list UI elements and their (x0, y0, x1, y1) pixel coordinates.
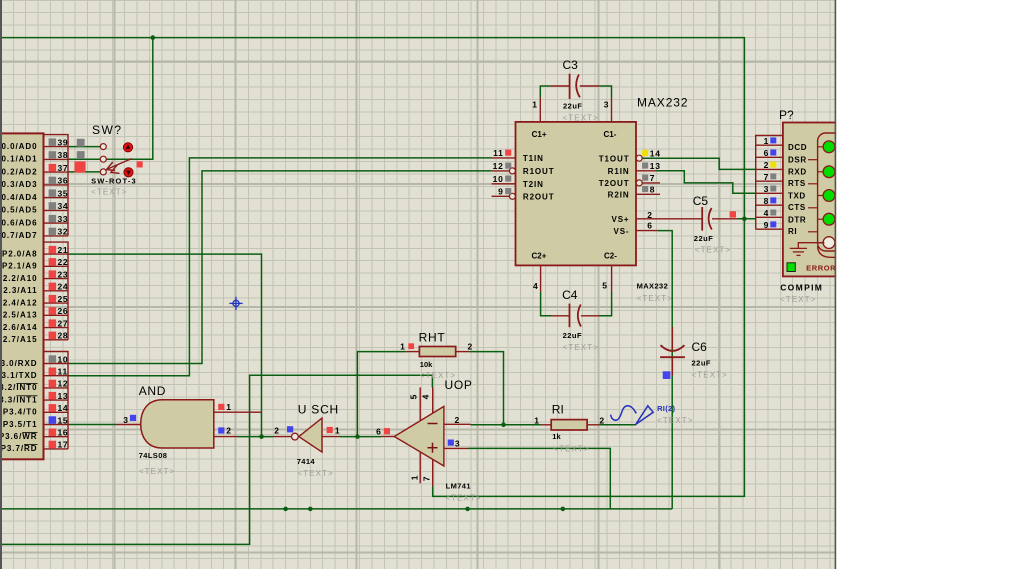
svg-text:22uF: 22uF (563, 331, 583, 340)
svg-text:<TEXT>: <TEXT> (780, 295, 816, 304)
svg-text:10: 10 (58, 354, 69, 364)
svg-text:2: 2 (468, 341, 473, 351)
svg-text:DCD: DCD (788, 143, 807, 152)
svg-text:14: 14 (58, 403, 69, 413)
svg-text:R2OUT: R2OUT (523, 193, 555, 202)
svg-text:CTS: CTS (788, 203, 806, 212)
svg-text:SW-ROT-3: SW-ROT-3 (91, 176, 137, 185)
svg-text:28: 28 (58, 331, 69, 341)
svg-text:VS+: VS+ (611, 215, 629, 224)
svg-text:10: 10 (493, 174, 504, 184)
svg-text:T1IN: T1IN (523, 154, 544, 163)
svg-text:38: 38 (58, 150, 69, 160)
svg-text:R1IN: R1IN (608, 167, 630, 176)
svg-text:0.6/AD6: 0.6/AD6 (2, 218, 38, 227)
svg-text:2: 2 (647, 210, 652, 220)
svg-text:8: 8 (650, 185, 655, 195)
svg-text:RI(2): RI(2) (657, 404, 675, 413)
svg-text:32: 32 (58, 227, 69, 237)
svg-text:C2-: C2- (604, 252, 617, 261)
svg-text:C5: C5 (693, 194, 709, 208)
svg-text:7: 7 (764, 172, 769, 182)
svg-text:U SCH: U SCH (298, 403, 339, 417)
svg-text:P?: P? (779, 108, 794, 122)
svg-text:C2+: C2+ (532, 252, 547, 261)
svg-text:1k: 1k (552, 432, 561, 441)
svg-text:39: 39 (58, 137, 69, 147)
svg-text:6: 6 (647, 221, 652, 231)
svg-text:ERROR: ERROR (806, 264, 836, 273)
svg-text:AND: AND (139, 384, 166, 398)
svg-text:P3.6/WR: P3.6/WR (0, 432, 38, 441)
svg-text:P2.1/A9: P2.1/A9 (2, 262, 38, 271)
svg-text:1: 1 (400, 341, 405, 351)
svg-text:33: 33 (58, 214, 69, 224)
svg-text:TXD: TXD (788, 191, 806, 200)
svg-text:22uF: 22uF (692, 358, 712, 367)
svg-text:LM741: LM741 (446, 481, 471, 490)
svg-text:DSR: DSR (788, 155, 807, 164)
svg-text:R1OUT: R1OUT (523, 167, 555, 176)
svg-text:T1OUT: T1OUT (599, 155, 630, 164)
svg-text:10k: 10k (420, 360, 433, 369)
svg-text:12: 12 (58, 379, 69, 389)
svg-text:0.0/AD0: 0.0/AD0 (2, 142, 38, 151)
svg-text:4: 4 (420, 394, 430, 399)
svg-text:6: 6 (376, 427, 381, 437)
svg-text:3.3/INT1: 3.3/INT1 (0, 395, 38, 404)
svg-text:P2.0/A8: P2.0/A8 (2, 249, 38, 258)
svg-text:C4: C4 (562, 288, 578, 302)
svg-text:RHT: RHT (419, 331, 446, 345)
svg-text:11: 11 (493, 148, 503, 158)
svg-text:DTR: DTR (788, 215, 806, 224)
svg-text:24: 24 (58, 282, 69, 292)
svg-text:RI: RI (788, 227, 797, 236)
svg-text:16: 16 (58, 428, 69, 438)
svg-text:P3.5/T1: P3.5/T1 (3, 420, 38, 429)
svg-text:2: 2 (226, 426, 231, 436)
svg-text:<TEXT>: <TEXT> (692, 370, 728, 379)
svg-text:5: 5 (602, 281, 607, 291)
svg-text:<TEXT>: <TEXT> (445, 494, 481, 503)
svg-text:15: 15 (58, 415, 69, 425)
svg-text:26: 26 (58, 306, 69, 316)
svg-text:6: 6 (764, 148, 769, 158)
svg-text:1: 1 (409, 475, 419, 480)
svg-text:14: 14 (650, 148, 661, 158)
svg-text:13: 13 (650, 161, 661, 171)
svg-text:MAX232: MAX232 (637, 95, 688, 109)
svg-text:C1+: C1+ (532, 130, 547, 139)
svg-text:7414: 7414 (297, 457, 316, 466)
svg-text:3: 3 (123, 415, 128, 425)
svg-text:37: 37 (58, 163, 69, 173)
svg-text:8: 8 (764, 196, 769, 206)
svg-text:34: 34 (58, 201, 69, 211)
svg-text:3.1/TXD: 3.1/TXD (2, 371, 38, 380)
svg-text:<TEXT>: <TEXT> (637, 294, 673, 303)
svg-text:<TEXT>: <TEXT> (563, 343, 599, 352)
svg-text:22: 22 (58, 257, 69, 267)
svg-text:1: 1 (226, 402, 231, 412)
svg-text:2.2/A10: 2.2/A10 (3, 274, 38, 283)
svg-text:P3.7/RD: P3.7/RD (1, 444, 38, 453)
svg-text:<TEXT>: <TEXT> (553, 445, 589, 454)
svg-text:<TEXT>: <TEXT> (563, 113, 599, 122)
svg-text:4: 4 (764, 208, 769, 218)
svg-text:0.7/AD7: 0.7/AD7 (2, 231, 38, 240)
svg-text:VS-: VS- (613, 227, 629, 236)
svg-text:2: 2 (764, 160, 769, 170)
svg-text:22uF: 22uF (694, 234, 714, 243)
svg-text:7: 7 (421, 476, 431, 481)
svg-text:3: 3 (604, 100, 609, 110)
svg-text:<TEXT>: <TEXT> (139, 467, 175, 476)
svg-text:RI: RI (552, 403, 564, 417)
svg-text:7: 7 (650, 173, 655, 183)
svg-text:35: 35 (58, 188, 69, 198)
svg-text:2: 2 (599, 415, 604, 425)
svg-text:SW?: SW? (92, 123, 123, 137)
svg-text:T2OUT: T2OUT (599, 179, 630, 188)
svg-text:25: 25 (58, 294, 69, 304)
svg-text:<TEXT>: <TEXT> (657, 416, 693, 425)
svg-text:2: 2 (274, 426, 279, 436)
svg-text:13: 13 (58, 391, 69, 401)
svg-text:3: 3 (455, 438, 460, 448)
svg-text:0.2/AD2: 0.2/AD2 (2, 167, 38, 176)
svg-text:4: 4 (533, 281, 538, 291)
svg-text:22uF: 22uF (563, 101, 583, 110)
svg-text:P3.4/T0: P3.4/T0 (3, 408, 38, 417)
svg-text:36: 36 (58, 176, 69, 186)
svg-text:1: 1 (764, 136, 769, 146)
svg-text:C1-: C1- (604, 130, 617, 139)
svg-text:12: 12 (493, 161, 504, 171)
svg-text:21: 21 (58, 245, 69, 255)
svg-text:0.1/AD1: 0.1/AD1 (2, 155, 38, 164)
svg-text:9: 9 (764, 220, 769, 230)
svg-text:2.6/A14: 2.6/A14 (3, 323, 38, 332)
svg-text:2.7/A15: 2.7/A15 (3, 335, 38, 344)
svg-text:COMPIM: COMPIM (780, 282, 823, 292)
svg-text:5: 5 (409, 394, 419, 399)
svg-text:<TEXT>: <TEXT> (420, 371, 456, 380)
svg-text:1: 1 (532, 100, 537, 110)
svg-text:3.0/RXD: 3.0/RXD (1, 359, 38, 368)
svg-text:17: 17 (58, 440, 69, 450)
svg-text:R2IN: R2IN (608, 191, 630, 200)
svg-text:2.3/A11: 2.3/A11 (3, 286, 37, 295)
svg-text:2: 2 (455, 415, 460, 425)
svg-text:23: 23 (58, 269, 69, 279)
svg-text:0.4/AD4: 0.4/AD4 (2, 193, 38, 202)
svg-text:2.5/A13: 2.5/A13 (3, 311, 38, 320)
svg-text:27: 27 (58, 318, 69, 328)
svg-text:0.3/AD3: 0.3/AD3 (2, 180, 38, 189)
svg-text:11: 11 (58, 367, 68, 377)
svg-text:1: 1 (335, 426, 340, 436)
svg-text:RTS: RTS (788, 179, 806, 188)
svg-text:MAX232: MAX232 (637, 282, 669, 291)
svg-text:9: 9 (498, 187, 503, 197)
svg-text:1: 1 (534, 415, 539, 425)
svg-text:3: 3 (764, 184, 769, 194)
svg-text:<TEXT>: <TEXT> (91, 188, 127, 197)
svg-text:T2IN: T2IN (523, 180, 544, 189)
svg-text:3.2/INT0: 3.2/INT0 (0, 383, 38, 392)
svg-text:<TEXT>: <TEXT> (695, 246, 731, 255)
svg-text:74LS08: 74LS08 (139, 451, 168, 460)
svg-text:2.4/A12: 2.4/A12 (3, 298, 38, 307)
svg-text:<TEXT>: <TEXT> (297, 469, 333, 478)
svg-text:C3: C3 (563, 58, 579, 72)
svg-text:C6: C6 (692, 340, 708, 354)
svg-text:RXD: RXD (788, 167, 807, 176)
svg-text:0.5/AD5: 0.5/AD5 (2, 206, 38, 215)
